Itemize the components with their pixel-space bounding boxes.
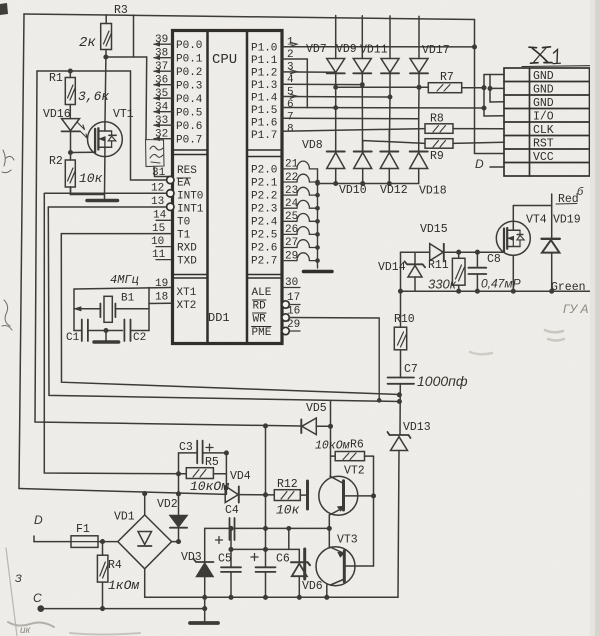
svg-text:GND: GND <box>533 97 554 110</box>
svg-text:P2.1: P2.1 <box>251 178 278 190</box>
svg-text:C4: C4 <box>225 504 239 517</box>
svg-text:Green: Green <box>551 281 586 294</box>
wire P2.5 hook <box>282 227 318 235</box>
plus marks <box>206 444 258 561</box>
svg-text:7: 7 <box>287 112 294 124</box>
svg-text:TXD: TXD <box>177 256 197 268</box>
wire VD18 drop <box>418 119 420 152</box>
transistor VT2 <box>319 476 374 515</box>
capacitor C7 <box>388 378 415 436</box>
svg-text:10кОм: 10кОм <box>190 479 229 494</box>
svg-text:38: 38 <box>155 48 168 60</box>
capacitor C8 <box>468 252 486 291</box>
wire X1 row8 stub <box>490 166 504 168</box>
svg-text:C3: C3 <box>179 441 193 454</box>
side verticals <box>74 288 149 331</box>
ground of crystal caps <box>105 331 107 341</box>
svg-text:29: 29 <box>287 319 300 331</box>
svg-text:VD16: VD16 <box>43 108 71 121</box>
diode VD10 <box>354 152 372 184</box>
svg-text:XT1: XT1 <box>177 287 197 299</box>
svg-text:C8: C8 <box>487 253 501 266</box>
wire VD15 left vertical <box>400 252 402 291</box>
wire R3 bottom rail <box>106 56 147 58</box>
op-amp U1 : CPU outer box <box>173 31 283 344</box>
wire P2.7 hook <box>282 253 318 261</box>
svg-text:330к: 330к <box>428 277 457 292</box>
diode VD7 <box>327 16 345 74</box>
wire P2.1 hook <box>282 174 318 182</box>
svg-text:CPU: CPU <box>212 52 237 68</box>
svg-text:R5: R5 <box>205 456 219 469</box>
wire GND stubs <box>489 75 491 103</box>
resistor R8 <box>425 124 504 134</box>
svg-text:37: 37 <box>155 61 168 73</box>
svg-text:VD2: VD2 <box>157 498 178 511</box>
wire VD12 drop <box>388 130 390 152</box>
node R3 bottom junction <box>104 55 108 59</box>
capacitor C6 <box>256 567 276 597</box>
svg-text:R8: R8 <box>430 113 444 126</box>
svg-text:P1.4: P1.4 <box>251 93 278 105</box>
svg-text:P2.6: P2.6 <box>251 243 277 255</box>
svg-text:P1.0: P1.0 <box>251 43 277 55</box>
diode VD4 <box>225 486 274 503</box>
diode VD19 <box>542 206 560 292</box>
svg-text:T1: T1 <box>177 230 191 242</box>
svg-text:GND: GND <box>533 84 554 97</box>
handwritten bottom labels <box>108 440 350 594</box>
wire R7 row <box>336 86 429 88</box>
wire P2.3 hook <box>282 200 318 208</box>
svg-text:1кОм: 1кОм <box>108 578 139 593</box>
svg-text:P2.4: P2.4 <box>251 217 278 229</box>
wire P1.6 to VD18 <box>282 117 419 119</box>
svg-text:3,6к: 3,6к <box>78 89 109 104</box>
svg-text:32: 32 <box>155 129 168 141</box>
wire VT4 source <box>512 256 514 292</box>
svg-text:PME: PME <box>252 327 272 339</box>
wire P1.0 to VCC drop <box>282 46 475 48</box>
left control pin stubs <box>156 220 171 259</box>
svg-text:VT3: VT3 <box>337 534 358 547</box>
svg-text:R10: R10 <box>394 313 415 326</box>
wire minus rail <box>145 596 398 598</box>
svg-text:P0.2: P0.2 <box>176 67 202 79</box>
svg-text:P2.7: P2.7 <box>251 256 277 268</box>
wire T1 feed <box>61 233 170 235</box>
wire XT1 rung <box>74 288 171 290</box>
ALE RD WR PME stubs <box>282 288 381 403</box>
wire bus drop at x=133.5 <box>133 15 135 57</box>
svg-text:18: 18 <box>155 292 168 304</box>
svg-text:ГУ А: ГУ А <box>563 302 589 316</box>
svg-text:RXD: RXD <box>177 243 197 255</box>
svg-text:F1: F1 <box>76 523 90 536</box>
wire base vertical <box>373 456 375 566</box>
bottom labels printed <box>76 402 410 593</box>
svg-text:VD11: VD11 <box>360 44 388 57</box>
svg-text:10к: 10к <box>276 503 300 518</box>
svg-text:C2: C2 <box>133 332 146 344</box>
svg-text:39: 39 <box>155 34 168 46</box>
svg-text:P1.3: P1.3 <box>251 80 277 92</box>
wire RES feed <box>145 57 148 139</box>
svg-text:б: б <box>577 186 584 198</box>
transistor VT3 <box>316 547 374 598</box>
wire XT2 pin <box>149 302 171 304</box>
pin bubbles EA INT0 INT1 <box>167 176 174 183</box>
transistor VT4 (MOSFET) <box>496 221 530 255</box>
wire VD5 bypass vertical <box>330 401 332 477</box>
svg-text:ик: ик <box>20 625 32 636</box>
svg-text:VD17: VD17 <box>422 44 450 57</box>
transistor VT1 (MOSFET) <box>88 57 123 195</box>
svg-text:35: 35 <box>155 88 168 100</box>
wire C4 row <box>205 527 230 529</box>
pin numbers right <box>285 37 300 332</box>
wire P1.5 to X1 GND <box>282 107 484 110</box>
svg-text:R9: R9 <box>430 150 444 163</box>
pin bubbles RD WR PME <box>282 301 289 308</box>
svg-text:P1.2: P1.2 <box>251 68 277 80</box>
svg-text:VD9: VD9 <box>336 43 357 56</box>
crystal B1 <box>100 296 115 322</box>
wire P1.7 to R8 <box>282 129 425 132</box>
resistor R6 <box>331 452 374 461</box>
wire R1 top rail <box>37 70 131 72</box>
svg-text:RST: RST <box>533 138 554 151</box>
svg-text:17: 17 <box>287 292 300 304</box>
svg-text:VT1: VT1 <box>113 108 134 121</box>
diode VD12 <box>380 152 398 184</box>
svg-text:11: 11 <box>152 249 166 261</box>
svg-text:R4: R4 <box>108 559 122 572</box>
resistor R4 <box>97 542 108 609</box>
svg-text:P0.7: P0.7 <box>176 135 202 147</box>
svg-text:VD6: VD6 <box>302 580 323 593</box>
svg-text:10: 10 <box>151 236 164 248</box>
connector X1 <box>504 68 590 176</box>
svg-text:8: 8 <box>287 124 294 136</box>
svg-text:2к: 2к <box>79 35 96 51</box>
wire VT2-VT3 link <box>328 515 330 548</box>
wire VT1 gate <box>71 151 96 153</box>
diode VD15 <box>430 244 444 261</box>
svg-text:INT0: INT0 <box>177 191 203 203</box>
svg-text:C6: C6 <box>276 553 290 566</box>
svg-text:R1: R1 <box>49 72 63 85</box>
wire X1 GND I/O riser <box>483 75 485 117</box>
svg-text:VD19: VD19 <box>553 214 581 227</box>
CPU port labels <box>176 40 278 339</box>
svg-text:VD1: VD1 <box>114 511 135 524</box>
svg-text:P2.0: P2.0 <box>251 165 277 177</box>
wire bottom C rail <box>41 608 205 610</box>
capacitor C5 <box>221 527 241 598</box>
right cell labels <box>378 214 581 435</box>
resistor R10 <box>394 291 406 377</box>
svg-text:33: 33 <box>155 115 168 127</box>
svg-text:VT2: VT2 <box>344 465 365 478</box>
wire INT0 feed long <box>44 193 186 474</box>
svg-text:R7: R7 <box>440 71 454 84</box>
svg-text:VD12: VD12 <box>380 184 408 197</box>
svg-text:P1.7: P1.7 <box>251 130 277 142</box>
svg-text:VD18: VD18 <box>419 185 447 198</box>
svg-text:4МГц: 4МГц <box>110 273 139 287</box>
wire left vertical V_L2 to VD5 <box>35 71 301 426</box>
diode VD18 <box>410 152 428 184</box>
P1 pin arrow marks <box>290 42 297 46</box>
ground under VT1 <box>87 199 118 203</box>
wire lower diode bus <box>318 183 419 185</box>
resistor R9 <box>425 139 504 149</box>
wire P2 common vertical <box>317 169 319 268</box>
svg-text:VCC: VCC <box>533 151 554 164</box>
svg-text:DD1: DD1 <box>208 311 230 325</box>
svg-text:З: З <box>15 573 22 585</box>
wire C5-C6 top rail <box>231 548 299 550</box>
svg-text:WR: WR <box>253 314 267 326</box>
svg-text:36: 36 <box>155 75 168 87</box>
svg-text:VD3: VD3 <box>181 551 202 564</box>
capacitor C6 feed vertical <box>265 426 267 567</box>
svg-text:INT1: INT1 <box>177 204 204 216</box>
svg-text:34: 34 <box>155 102 169 114</box>
svg-text:P1.5: P1.5 <box>251 105 277 117</box>
svg-text:T0: T0 <box>177 217 190 229</box>
diode VD11 <box>381 16 399 97</box>
wire P1.2 to VD7 <box>282 71 336 73</box>
VT2 gate bar <box>306 481 309 509</box>
svg-text:R12: R12 <box>277 478 298 491</box>
svg-text:16: 16 <box>287 306 300 318</box>
svg-text:VD14: VD14 <box>378 261 406 274</box>
diode VD16 (LED) <box>62 119 88 160</box>
svg-text:CLK: CLK <box>533 124 554 137</box>
svg-text:VT4: VT4 <box>526 214 547 227</box>
svg-text:14: 14 <box>153 210 167 222</box>
wire VD15 gate rail <box>401 251 505 253</box>
wire VT4 drain rail <box>513 205 551 207</box>
wire P1.3 to VD9 <box>282 83 362 85</box>
capacitor C3 <box>179 441 227 464</box>
svg-text:P1.6: P1.6 <box>251 118 277 130</box>
svg-text:VD8: VD8 <box>302 139 323 152</box>
wire crystal rung <box>74 308 149 310</box>
resistor R3 <box>101 15 112 57</box>
svg-text:GND: GND <box>533 70 554 83</box>
svg-text:10кОм: 10кОм <box>315 440 350 453</box>
svg-text:15: 15 <box>152 223 165 235</box>
svg-text:P2.3: P2.3 <box>251 204 277 216</box>
svg-text:P0.1: P0.1 <box>176 54 203 66</box>
svg-text:R11: R11 <box>428 259 449 272</box>
svg-text:EA: EA <box>177 178 191 190</box>
svg-text:VD10: VD10 <box>339 184 367 197</box>
svg-text:B1: B1 <box>121 293 135 305</box>
wire left vertical V_L4 to C7 node <box>61 234 399 395</box>
wire P1.4 to VD11 <box>282 96 390 99</box>
svg-text:RES: RES <box>177 165 197 177</box>
wire Green rail <box>401 290 593 292</box>
wire WR to right <box>289 318 379 401</box>
capacitor C4 <box>230 518 332 549</box>
svg-text:6: 6 <box>287 99 294 111</box>
hand-drawn correction box near RES <box>146 140 165 167</box>
svg-text:P1.1: P1.1 <box>251 55 278 67</box>
svg-text:P0.6: P0.6 <box>176 121 202 133</box>
ground under R2 leg <box>70 187 72 195</box>
wire EA feed <box>131 71 167 180</box>
svg-text:1000пф: 1000пф <box>417 373 468 389</box>
wire P2.6 hook <box>282 240 318 248</box>
svg-text:R2: R2 <box>49 155 63 168</box>
svg-text:P0.5: P0.5 <box>176 108 202 120</box>
svg-text:VD4: VD4 <box>230 470 251 483</box>
svg-text:C1: C1 <box>66 332 80 344</box>
zener VD14 <box>405 252 426 291</box>
wire C3/R5 junction drop <box>225 453 227 495</box>
wire P2.0 hook <box>282 161 318 169</box>
svg-text:0,47мР: 0,47мР <box>481 277 521 291</box>
diode VD8 <box>327 87 345 183</box>
wire P2.4 hook <box>282 214 318 222</box>
svg-text:12: 12 <box>151 183 164 195</box>
diode VD17 <box>410 16 428 87</box>
fuse F1 <box>34 536 118 548</box>
svg-text:ALE: ALE <box>252 287 272 299</box>
wire matrix column gaps <box>336 73 419 151</box>
svg-text:R3: R3 <box>114 4 128 17</box>
svg-text:С: С <box>33 591 42 605</box>
svg-text:10к: 10к <box>79 171 103 186</box>
wire VCC drop to X1 <box>475 20 505 154</box>
svg-text:VD15: VD15 <box>420 223 448 236</box>
connector X1 big label <box>522 47 599 67</box>
P0 pin lines with arrows <box>153 42 173 141</box>
svg-text:31: 31 <box>152 167 166 179</box>
zener VD13 <box>388 432 411 597</box>
wire top bus <box>24 14 475 20</box>
wire P2.2 hook <box>282 187 318 195</box>
svg-text:R6: R6 <box>350 439 364 452</box>
VT3 gate bar <box>303 549 306 579</box>
wire P1.1 jog <box>282 59 307 108</box>
svg-text:13: 13 <box>151 196 164 208</box>
svg-text:XT2: XT2 <box>177 300 197 312</box>
pin numbers left <box>151 34 169 304</box>
svg-text:P0.0: P0.0 <box>176 40 202 52</box>
diode VD2 <box>170 516 187 528</box>
resistor R11 <box>452 252 465 291</box>
svg-text:P0.3: P0.3 <box>176 81 202 93</box>
P2 pin arcs and collector vertical <box>282 161 319 268</box>
zener VD3 <box>194 528 214 622</box>
CPU field dividers <box>173 150 208 278</box>
scan artifacts <box>0 3 8 15</box>
top-left labels <box>43 4 134 168</box>
svg-text:VD7: VD7 <box>306 43 327 56</box>
svg-text:RD: RD <box>253 301 267 313</box>
wire left vertical V_L3 to C7 node <box>48 207 399 402</box>
wire R9 to VD10 <box>363 141 425 152</box>
wire VT4 gate <box>503 251 505 254</box>
svg-text:C7: C7 <box>404 363 418 376</box>
svg-text:C5: C5 <box>218 553 232 566</box>
svg-text:P2.2: P2.2 <box>251 191 277 203</box>
wire plus rail <box>19 489 225 495</box>
wire left vertical V_L1 <box>19 14 24 489</box>
node VD16-R2 junction <box>69 151 73 155</box>
resistor R12 <box>274 490 305 501</box>
svg-text:VD5: VD5 <box>306 402 327 415</box>
resistor R5 <box>186 468 226 479</box>
resistor R2 <box>65 160 103 195</box>
resistor R7 <box>428 83 484 93</box>
svg-text:19: 19 <box>155 278 168 290</box>
ground bar bottom <box>190 621 218 625</box>
resistor R1 <box>65 69 75 118</box>
wire INT1 feed <box>48 206 170 208</box>
ground bar P2 <box>304 270 333 274</box>
capacitor C2 <box>124 320 149 342</box>
diode VD9 <box>353 16 371 85</box>
capacitor C1 <box>74 320 122 342</box>
svg-text:D: D <box>34 513 43 527</box>
svg-text:P2.5: P2.5 <box>251 230 277 242</box>
svg-text:P0.4: P0.4 <box>176 94 203 106</box>
svg-text:I/O: I/O <box>533 111 554 124</box>
bridge VD1 <box>118 494 179 598</box>
wire Red terminal <box>551 194 553 206</box>
diode VD5 <box>301 418 330 435</box>
svg-text:D: D <box>475 157 484 171</box>
matrix labels <box>302 43 454 198</box>
left edge pencil squiggle <box>2 150 14 173</box>
wire C3 feed vertical <box>178 453 180 542</box>
zener VD6 <box>291 549 310 597</box>
